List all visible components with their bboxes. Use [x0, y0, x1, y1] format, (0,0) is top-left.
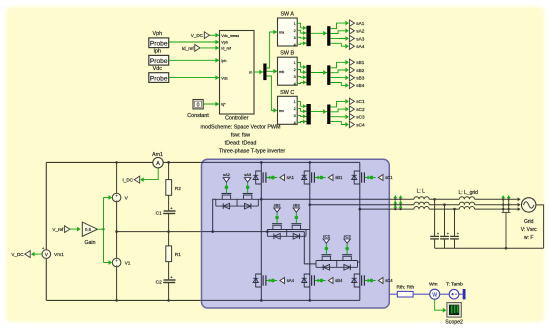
wire DC- bus inside inverter — [202, 299, 360, 301]
diode of sB3 — [293, 234, 299, 240]
goto tag sB2 — [349, 67, 354, 73]
wire pair B to phase node — [306, 229, 310, 231]
wire SW B out3 to mux — [297, 76, 303, 79]
wire to goto sA2 — [330, 31, 345, 34]
wire ma to SW A — [267, 32, 274, 68]
scope Scope2 — [447, 303, 461, 318]
diode of sB2 — [274, 234, 280, 240]
svg-text:Wm: Wm — [429, 282, 438, 288]
svg-text:sB2: sB2 — [356, 68, 364, 73]
wire Constant to controller iq* — [203, 103, 219, 105]
wire to V control — [104, 197, 110, 199]
wire to goto sA1 — [330, 23, 345, 29]
constant block 0 — [193, 100, 203, 109]
demux bar (m to ma mb mc) — [263, 64, 266, 81]
mosfet sB3 — [292, 225, 300, 229]
svg-text:sA3: sA3 — [356, 36, 364, 41]
svg-text:Vph: Vph — [221, 41, 228, 45]
svg-text:Scope2: Scope2 — [445, 319, 463, 325]
diode of sC2 — [323, 265, 329, 271]
wire mb to SW B — [267, 70, 278, 72]
mosfet sB4 — [302, 274, 315, 287]
node DC+ leg B — [309, 161, 312, 164]
voltmeter Vm1 on left rail — [42, 250, 51, 259]
wire R2 to C1 — [168, 195, 170, 211]
wire V_ref to Gain — [70, 228, 78, 230]
svg-text:sB3: sB3 — [293, 202, 301, 207]
wire phase lines to filter — [389, 198, 414, 200]
svg-text:Id_ref: Id_ref — [221, 47, 232, 51]
subsystem block Controller U1 — [220, 31, 255, 115]
node filter cap A — [433, 198, 436, 201]
svg-text:0: 0 — [197, 102, 200, 108]
diode of sC3 — [344, 265, 350, 271]
svg-text:0.5: 0.5 — [85, 227, 92, 232]
goto tag I_DC with wire from Am1 — [143, 168, 158, 180]
svg-text:V_DC: V_DC — [191, 33, 204, 38]
wire pair diode row sA2/sA3 — [216, 205, 258, 207]
wire to goto sA4 — [330, 43, 345, 46]
wire SW C out2 to mux — [297, 109, 303, 112]
node filter cap B — [443, 203, 446, 206]
goto tag sA1 — [349, 20, 354, 26]
node neutral / RC column — [167, 230, 170, 233]
capacitor C1 — [164, 210, 176, 212]
goto tag V_DC from Vm1 — [34, 253, 42, 255]
svg-text:Vm1: Vm1 — [54, 252, 64, 258]
goto tag sA4 — [349, 43, 354, 49]
wire inverter thermal port — [389, 293, 397, 295]
current probe markers at inverter output — [393, 195, 397, 198]
filter capacitor at x=444.5 — [440, 235, 449, 237]
wire neutral step down to leg C pair — [304, 232, 316, 264]
svg-text:w: F: w: F — [524, 235, 533, 241]
svg-text:L: L_grid: L: L_grid — [458, 190, 478, 196]
from tag sB1 — [328, 175, 333, 181]
wire left rail — [45, 162, 47, 250]
svg-text:L: L: L: L — [417, 189, 426, 195]
wire leg A — [260, 162, 262, 300]
mosfet sA2 — [222, 195, 230, 199]
demux bar sC — [327, 105, 330, 125]
svg-text:sA3: sA3 — [244, 172, 252, 177]
svg-text:Probe: Probe — [150, 75, 168, 82]
node DC- leg B — [309, 299, 312, 302]
svg-text:sA1: sA1 — [356, 21, 364, 26]
wire to goto sB1 — [330, 62, 345, 68]
gate wire sA2 — [225, 182, 227, 193]
svg-text:1: 1 — [294, 61, 296, 65]
svg-text:Iph: Iph — [154, 49, 162, 55]
wire Probe2 Iph to controller — [169, 59, 219, 61]
wire source column lower — [116, 267, 118, 301]
from tag sB2 — [274, 208, 281, 212]
mosfet sB1 — [302, 171, 315, 184]
goto tag sC4 — [349, 121, 354, 127]
wire pair A to phase node — [258, 198, 261, 200]
goto tag sB4 — [349, 82, 354, 88]
svg-text:tDead: tDead: tDead: tDead — [225, 141, 257, 147]
svg-text:sC3: sC3 — [356, 115, 365, 120]
svg-text:mb: mb — [279, 70, 284, 74]
goto tag sB3 — [349, 75, 354, 81]
mosfet sC3 — [343, 256, 351, 260]
svg-text:V: Vsrc: V: Vsrc — [521, 227, 537, 233]
svg-text:ma: ma — [279, 31, 285, 35]
gate wire sC4 — [365, 280, 376, 282]
svg-text:C1: C1 — [156, 211, 162, 217]
wire V_DC to controller Vdc_meas — [210, 34, 220, 36]
grid AC source — [522, 198, 536, 212]
svg-text:Id_ref: Id_ref — [182, 46, 194, 51]
wire phase C — [360, 208, 390, 210]
from tag sC3 — [344, 239, 351, 243]
wire SW C out4 to mux — [297, 122, 303, 123]
wire SW A out1 to mux — [297, 23, 303, 28]
svg-text:3: 3 — [294, 114, 296, 118]
wire filter cap return bus — [435, 247, 544, 249]
subsystem box Three-phase T-type inverter — [202, 159, 390, 308]
svg-text:V_DC: V_DC — [11, 252, 24, 257]
node bottom rail / RC column — [167, 299, 170, 302]
wire SW A out2 to mux — [297, 30, 303, 33]
gate wire sC2 — [325, 244, 327, 255]
svg-text:Constant: Constant — [187, 113, 209, 119]
node phase B — [309, 203, 312, 206]
svg-text:Controller: Controller — [225, 116, 249, 122]
gate wire sA4 — [267, 280, 278, 282]
voltage probe markers at grid — [502, 198, 504, 200]
svg-text:m: m — [249, 71, 252, 75]
goto tag sA3 — [349, 35, 354, 41]
mosfet sC1 — [352, 171, 365, 184]
wire pair C to leg C — [358, 261, 360, 263]
wire leg B — [309, 162, 311, 300]
wire to goto sB2 — [330, 70, 345, 73]
svg-text:1: 1 — [294, 22, 296, 26]
wire Rth to Wm — [413, 293, 430, 295]
filter capacitor at x=454.5 — [450, 235, 459, 237]
svg-text:Vph: Vph — [153, 31, 163, 37]
svg-text:sB4: sB4 — [335, 278, 343, 283]
gate wire sB4 — [315, 280, 326, 282]
wire phase A — [261, 198, 389, 200]
wire to goto sC2 — [330, 109, 345, 112]
gate wire sC3 — [346, 244, 348, 255]
wire pair channel sA2/sA3 — [216, 198, 258, 200]
wire to goto sC1 — [330, 101, 345, 107]
svg-text:Vdc: Vdc — [153, 66, 163, 72]
gate wire sB3 — [295, 213, 297, 224]
wire Id_ref to controller — [200, 47, 220, 49]
wire mux B to demux B — [311, 72, 327, 74]
svg-text:SW B: SW B — [280, 51, 294, 57]
wire Gain output to V and V1 control — [98, 228, 104, 230]
svg-text:Rth: Rth: Rth: Rth — [396, 284, 414, 290]
svg-text:Probe: Probe — [150, 58, 168, 65]
wire to goto sC3 — [330, 116, 345, 118]
node phase C — [359, 208, 362, 211]
mux bar SW C — [307, 104, 311, 125]
wire grid sensing columns — [502, 199, 504, 212]
svg-text:3: 3 — [294, 36, 296, 40]
svg-text:1: 1 — [294, 100, 296, 104]
svg-text:4: 4 — [294, 121, 296, 125]
from tag sA4 — [280, 278, 285, 284]
svg-text:sA4: sA4 — [356, 44, 364, 49]
goto tag sC3 — [349, 114, 354, 120]
mosfet sB2 — [273, 225, 281, 229]
wire neutral to R1 — [168, 232, 170, 246]
gate wire sB2 — [276, 213, 278, 224]
node neutral / source column — [115, 230, 118, 233]
diode of sA3 — [244, 203, 250, 209]
node phase A — [260, 198, 263, 201]
wire Probe3 Vdc to controller — [169, 77, 219, 79]
wire source column upper — [116, 162, 118, 193]
wire controller m output to demux — [254, 71, 263, 73]
resistor R1 — [166, 246, 172, 262]
voltage source V — [112, 193, 121, 202]
svg-text:V_ref: V_ref — [52, 227, 64, 232]
goto tag sB1 — [349, 59, 354, 65]
svg-text:Gain: Gain — [85, 240, 96, 246]
goto tag sA2 — [349, 28, 354, 34]
node neutral branch A — [211, 230, 214, 233]
svg-text:3: 3 — [294, 75, 296, 79]
svg-text:A: A — [156, 161, 160, 167]
svg-text:4: 4 — [294, 82, 296, 86]
from tag sA1 — [280, 175, 285, 181]
svg-text:2: 2 — [294, 107, 296, 111]
svg-text:Probe: Probe — [150, 41, 168, 48]
gain block Gain 0.5 — [82, 222, 97, 236]
svg-text:T: Tamb: T: Tamb — [446, 282, 463, 288]
svg-text:sC4: sC4 — [385, 278, 393, 283]
svg-text:sB3: sB3 — [356, 76, 364, 81]
wire pair diode row sB2/sB3 — [267, 235, 306, 237]
from tag sB3 — [293, 208, 300, 212]
svg-text:SW A: SW A — [280, 12, 294, 18]
wire mux C to demux C — [311, 111, 327, 113]
wire SW C out3 to mux — [297, 115, 303, 118]
resistor R2 — [166, 180, 172, 196]
svg-text:sC1: sC1 — [356, 99, 365, 104]
wire RC column to R2 — [168, 162, 170, 179]
from tag sA3 — [244, 178, 251, 182]
wire C1 to neutral — [168, 214, 170, 232]
from tag sC4 — [378, 278, 383, 284]
wire neutral rail inside inverter — [202, 231, 305, 233]
svg-text:I_DC: I_DC — [123, 177, 134, 182]
wire SW B out4 to mux — [297, 82, 303, 83]
mosfet sC2 — [322, 256, 330, 260]
wire cap branch C — [454, 209, 456, 236]
svg-text:sC4: sC4 — [356, 122, 365, 127]
wire R1 to C2 — [168, 262, 170, 280]
svg-text:sB1: sB1 — [356, 60, 364, 65]
mosfet sA3 — [243, 195, 251, 199]
svg-text:modScheme: Space Vector PWM: modScheme: Space Vector PWM — [201, 125, 282, 131]
wire source column middle — [116, 202, 118, 258]
wire cap branch B — [444, 205, 446, 237]
gate wire sA1 — [267, 177, 278, 179]
wire Tamb to terminator — [459, 293, 463, 295]
wire SW B out2 to mux — [297, 70, 303, 73]
filter capacitor at x=434.6 — [430, 235, 439, 237]
wire neutral branch up to pair A — [213, 199, 216, 231]
svg-text:W: W — [432, 292, 437, 298]
svg-text:sA2: sA2 — [356, 29, 364, 34]
svg-text:sA1: sA1 — [287, 175, 295, 180]
wire Wm signal to Scope2 — [435, 299, 444, 310]
wire Wm to Tamb — [440, 293, 449, 295]
from tag sC2 — [323, 239, 330, 243]
from tag sC1 — [378, 175, 383, 181]
wire bottom rail — [46, 299, 202, 301]
svg-text:Iph: Iph — [221, 59, 226, 63]
demux bar sA — [327, 26, 330, 46]
demux bar sB — [327, 65, 330, 85]
svg-text:sB2: sB2 — [274, 202, 282, 207]
goto tag sC2 — [349, 106, 354, 112]
svg-text:sB4: sB4 — [356, 83, 364, 88]
gate wire sB1 — [315, 177, 326, 179]
node neutral branch B — [266, 230, 269, 233]
svg-text:C2: C2 — [156, 280, 162, 286]
goto tag sC1 — [349, 98, 354, 104]
wire DC+ bus inside inverter — [202, 161, 360, 163]
svg-text:sA2: sA2 — [223, 172, 231, 177]
svg-text:R1: R1 — [175, 252, 181, 258]
from tag sA2 — [223, 178, 230, 182]
node top rail / RC column — [167, 161, 170, 164]
wire pair channel sB2/sB3 — [267, 229, 306, 231]
wire cap branch A — [434, 199, 436, 236]
mux bar SW B — [307, 65, 311, 86]
svg-text:SW C: SW C — [280, 90, 294, 96]
wire leg C — [359, 162, 361, 300]
svg-text:2: 2 — [294, 29, 296, 33]
node bottom rail / source column — [115, 299, 118, 302]
wire mux A to demux A — [311, 32, 327, 34]
arrows into grid source — [518, 197, 521, 201]
svg-text:Vdc: Vdc — [221, 76, 228, 80]
wire grid return — [536, 205, 544, 248]
svg-text:Vdc_meas: Vdc_meas — [221, 34, 239, 38]
wire to goto sA3 — [330, 37, 345, 39]
svg-text:fsw: fsw: fsw: fsw — [231, 133, 250, 139]
wire to V1 control — [104, 262, 110, 264]
node DC+ leg A — [260, 161, 263, 164]
wire Probe1 Vph to controller — [169, 41, 219, 43]
wire SW B out1 to mux — [297, 63, 303, 68]
wire pair channel sC2/sC3 — [316, 260, 358, 262]
gate wire sA3 — [247, 182, 249, 193]
thermal terminator — [463, 289, 466, 299]
svg-text:iq*: iq* — [221, 103, 226, 107]
gate wire sC1 — [365, 177, 376, 179]
svg-text:sA4: sA4 — [287, 278, 295, 283]
svg-text:mc: mc — [279, 109, 284, 113]
wire SW A out3 to mux — [297, 36, 303, 39]
from tag sB4 — [328, 278, 333, 284]
wire phase B — [310, 204, 390, 206]
mux bar SW A — [307, 26, 311, 47]
wire mc to SW C — [267, 76, 278, 110]
wire DC+ top rail — [46, 161, 153, 163]
mosfet sC4 — [352, 274, 365, 287]
svg-text:sC1: sC1 — [385, 175, 393, 180]
wire to goto sB3 — [330, 77, 345, 79]
svg-text:sB1: sB1 — [335, 175, 343, 180]
node after Am1 — [167, 161, 170, 164]
svg-text:2: 2 — [294, 68, 296, 72]
node DC- leg A — [260, 299, 263, 302]
svg-text:4: 4 — [294, 43, 296, 47]
wire SW A out4 to mux — [297, 43, 303, 44]
wire C2 to bottom rail — [168, 283, 170, 301]
mosfet sA1 — [253, 171, 266, 184]
svg-text:Grid: Grid — [524, 219, 534, 225]
wire to goto sB4 — [330, 83, 345, 86]
svg-text:R2: R2 — [175, 186, 181, 192]
svg-text:sC3: sC3 — [344, 233, 352, 238]
svg-text:sC2: sC2 — [323, 233, 331, 238]
node return bus — [505, 247, 508, 250]
mosfet sA4 — [253, 274, 266, 287]
wire neutral rail — [117, 231, 202, 233]
capacitor C2 — [164, 279, 176, 281]
wire SW C out1 to mux — [297, 102, 303, 107]
node filter cap C — [453, 208, 456, 211]
svg-text:V1: V1 — [125, 261, 131, 267]
wire sensing to return bus — [505, 212, 507, 248]
wire pair diode row sC2/sC3 — [316, 266, 358, 268]
diode of sA2 — [223, 203, 229, 209]
voltage source V1 — [112, 258, 121, 267]
wire to goto sC4 — [330, 122, 345, 125]
svg-text:Three-phase T-type inverter: Three-phase T-type inverter — [219, 148, 286, 154]
svg-text:sC2: sC2 — [356, 107, 365, 112]
node top rail / source column — [115, 161, 118, 164]
